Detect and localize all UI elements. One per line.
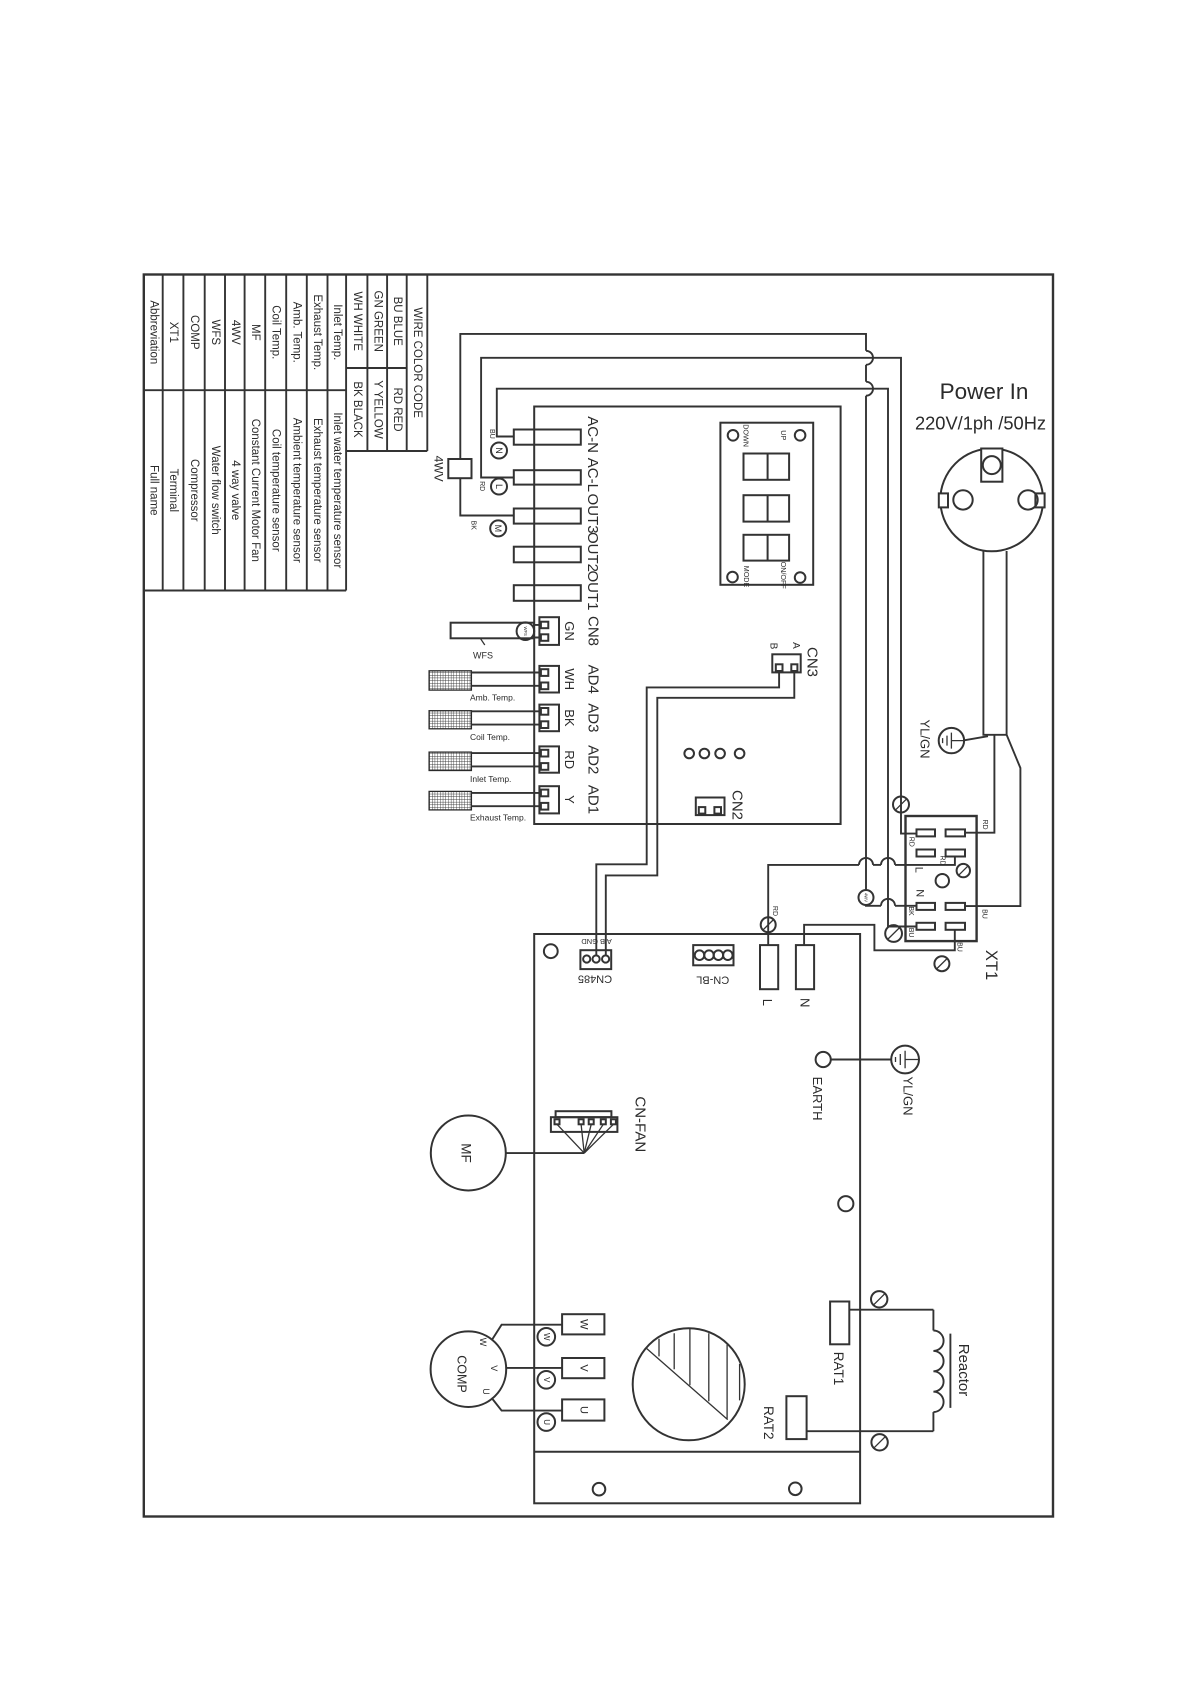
svg-text:N: N [914, 889, 926, 897]
wire hop 4WV over AC-N [866, 382, 873, 396]
mounting hole [544, 944, 558, 958]
legend table grid [144, 275, 428, 591]
svg-text:W: W [542, 1333, 551, 1341]
junction circle [871, 1434, 887, 1450]
node circle V [538, 1371, 556, 1389]
compressor motor COMP [431, 1331, 507, 1407]
temperature sensor Inlet Temp. [429, 752, 471, 770]
svg-text:BU: BU [907, 928, 914, 938]
wire COMP W [492, 1325, 562, 1341]
svg-text:Y: Y [562, 795, 577, 804]
screw circle on L feed [761, 917, 776, 932]
svg-text:COMP: COMP [455, 1355, 469, 1393]
connector CN485 [580, 950, 611, 969]
connector CN-FAN [551, 1111, 618, 1132]
svg-text:WFS: WFS [523, 627, 528, 637]
svg-text:CN3: CN3 [804, 647, 821, 677]
svg-text:V: V [542, 1377, 551, 1383]
svg-text:A B GND: A B GND [581, 937, 612, 946]
node M circle [490, 520, 506, 536]
svg-text:V: V [577, 1364, 589, 1372]
svg-text:U: U [542, 1419, 551, 1425]
svg-text:4WV: 4WV [864, 893, 869, 902]
svg-text:B: B [768, 643, 779, 650]
wire CN-FAN to MF [506, 1152, 584, 1154]
svg-text:RD: RD [771, 906, 778, 916]
svg-text:AC-N: AC-N [584, 416, 601, 453]
power PCB outline [534, 934, 860, 1503]
temperature sensor Exhaust Temp. [429, 791, 471, 810]
svg-text:BU: BU [488, 429, 495, 439]
svg-text:WFS: WFS [473, 651, 493, 661]
svg-text:Constant Current Motor Fan: Constant Current Motor Fan [249, 419, 261, 562]
svg-text:BK: BK [907, 906, 914, 916]
terminal RAT2 [786, 1396, 806, 1439]
connector CN-BL [693, 945, 733, 965]
wire reactor to RAT2 [807, 1430, 934, 1432]
svg-text:AD4: AD4 [585, 665, 602, 694]
svg-text:WH: WH [562, 668, 577, 690]
controller PCB outline [534, 407, 840, 825]
svg-text:AD2: AD2 [585, 745, 602, 774]
wire plug live RD to XT1 row1 [965, 735, 995, 833]
svg-text:Exhaust temperature sensor: Exhaust temperature sensor [311, 418, 323, 563]
svg-text:CN2: CN2 [729, 790, 746, 820]
terminal U [562, 1399, 604, 1420]
mounting hole [593, 1483, 606, 1496]
svg-text:UP: UP [779, 430, 788, 440]
terminal V [562, 1358, 604, 1378]
temperature sensor Amb. Temp. [429, 671, 471, 690]
wire COMP V [506, 1367, 562, 1369]
svg-text:BK: BK [562, 709, 577, 727]
svg-text:Inlet Temp.: Inlet Temp. [470, 774, 511, 784]
svg-text:OUT3: OUT3 [584, 494, 601, 534]
svg-text:Full name: Full name [147, 465, 159, 516]
svg-text:Ambient temperature sensor: Ambient temperature sensor [291, 418, 303, 563]
connector AD4 [539, 666, 559, 693]
wire COMP U [492, 1398, 562, 1411]
svg-text:BU: BU [956, 942, 963, 952]
svg-text:RD: RD [939, 855, 946, 865]
svg-text:DOWN: DOWN [742, 424, 751, 447]
connector CN3 [772, 654, 800, 672]
junction circle [871, 1291, 887, 1307]
svg-text:Coil temperature sensor: Coil temperature sensor [270, 429, 282, 552]
reactor coil [932, 1310, 934, 1331]
svg-text:U: U [577, 1406, 589, 1414]
svg-text:MF: MF [249, 324, 261, 341]
svg-text:RAT1: RAT1 [831, 1352, 846, 1386]
svg-text:RD: RD [562, 750, 577, 769]
svg-text:RD: RD [478, 481, 485, 491]
wire earth stud to YL/GN [831, 1059, 891, 1061]
spade terminal N [796, 945, 814, 989]
connector AD3 [539, 705, 559, 732]
svg-text:BK BLACK: BK BLACK [351, 381, 363, 438]
spade terminal L [760, 945, 778, 989]
terminal W [562, 1314, 604, 1334]
svg-text:BU BLUE: BU BLUE [391, 297, 403, 347]
screw circle XT1 mid [957, 864, 970, 877]
svg-text:YL/GN: YL/GN [918, 719, 933, 758]
wire L spade to XT1 row2 [768, 865, 859, 946]
relay output connector OUT3 [514, 509, 581, 524]
relay output connector AC-N [514, 430, 581, 445]
earth stud [816, 1052, 831, 1067]
svg-text:U: U [481, 1388, 491, 1395]
wire 4WV to OUT3 relay [460, 478, 514, 515]
svg-text:4WV: 4WV [229, 320, 241, 345]
svg-text:CN-FAN: CN-FAN [632, 1096, 649, 1152]
motor fan MF [431, 1116, 506, 1191]
wire 4WV coil feed [460, 334, 866, 459]
screw circle below XT1 [934, 956, 949, 971]
svg-text:Reactor: Reactor [955, 1344, 972, 1397]
svg-text:Amb. Temp.: Amb. Temp. [470, 693, 515, 703]
connector CN8 [539, 617, 559, 645]
display keypad block [720, 423, 813, 590]
svg-text:WIRE COLOR CODE: WIRE COLOR CODE [411, 307, 423, 418]
screw circle XT1 bottom-left [885, 925, 902, 942]
svg-text:Inlet Temp.: Inlet Temp. [331, 304, 343, 360]
mounting hole [789, 1483, 802, 1496]
wire CN3-B to CN485 [596, 671, 779, 956]
drawing border frame [144, 275, 1053, 1517]
svg-text:N: N [494, 447, 504, 454]
svg-text:RD RED: RD RED [391, 387, 403, 431]
svg-text:V: V [489, 1365, 499, 1371]
wire N spade to XT1 row4 [804, 925, 955, 951]
svg-text:CN8: CN8 [585, 616, 602, 646]
svg-text:Terminal: Terminal [167, 469, 179, 512]
svg-text:Coil Temp.: Coil Temp. [470, 732, 510, 742]
svg-text:COMP: COMP [188, 315, 200, 350]
connector AD2 [539, 746, 559, 772]
svg-text:N: N [798, 998, 813, 1007]
compressor body symbol [633, 1328, 745, 1440]
svg-text:CN-BL: CN-BL [696, 973, 729, 985]
svg-text:EARTH: EARTH [810, 1077, 825, 1121]
svg-text:Inlet water temperature sensor: Inlet water temperature sensor [331, 412, 343, 568]
svg-text:Amb. Temp.: Amb. Temp. [291, 302, 303, 363]
svg-text:Y YELLOW: Y YELLOW [371, 380, 383, 439]
terminal block XT1 [906, 816, 977, 941]
svg-text:MF: MF [459, 1143, 474, 1163]
svg-text:RD: RD [981, 819, 988, 829]
solenoid valve 4WV [448, 459, 471, 478]
svg-text:Compressor: Compressor [188, 459, 200, 522]
connector CN2 [696, 798, 725, 816]
relay output connector OUT1 [514, 585, 581, 601]
earth pigtail YL/GN [964, 736, 988, 740]
fan harness wires [557, 1124, 584, 1153]
svg-text:GN: GN [562, 621, 577, 641]
svg-text:OUT2: OUT2 [584, 532, 601, 572]
screw circle near XT1 top [893, 797, 909, 813]
svg-text:220V/1ph /50Hz: 220V/1ph /50Hz [915, 413, 1046, 434]
svg-text:ON/OFF: ON/OFF [779, 562, 788, 590]
svg-text:YL/GN: YL/GN [901, 1076, 916, 1115]
terminal RAT1 [830, 1302, 849, 1345]
wire hop 4WV over AC-L [866, 351, 873, 365]
svg-text:GN GREEN: GN GREEN [371, 291, 383, 352]
svg-text:4WV: 4WV [432, 456, 446, 482]
relay output connector AC-L [514, 470, 581, 484]
wire AC-N to XT1 (BU) [497, 389, 917, 927]
earth symbol YL/GN [891, 1046, 919, 1074]
svg-text:MODE: MODE [742, 566, 751, 588]
wire CN3-A to CN485 [606, 671, 795, 956]
svg-text:4 way valve: 4 way valve [229, 460, 241, 520]
connector AD1 [539, 786, 559, 813]
svg-text:A: A [790, 642, 801, 649]
svg-text:BU: BU [980, 909, 987, 919]
mains cord [983, 551, 1006, 735]
wire RAT1 to reactor [849, 1309, 933, 1311]
wire 4WV return into XT1 [866, 904, 881, 907]
node circle U [538, 1413, 556, 1431]
svg-text:XT1: XT1 [167, 322, 179, 343]
node circle W [538, 1328, 556, 1346]
svg-text:Water flow switch: Water flow switch [209, 446, 221, 535]
svg-text:WFS: WFS [209, 320, 221, 346]
svg-text:AD1: AD1 [585, 785, 602, 814]
water flow switch WFS [451, 623, 534, 639]
wire plug neutral BU to XT1 row3 [965, 735, 1021, 906]
temperature sensor Coil Temp. [429, 711, 471, 729]
svg-text:RD: RD [907, 837, 914, 847]
mounting hole [838, 1196, 853, 1211]
svg-text:L: L [494, 484, 504, 489]
svg-text:Coil Temp.: Coil Temp. [270, 305, 282, 359]
svg-text:M: M [493, 525, 503, 533]
svg-text:L: L [760, 999, 775, 1006]
node N circle [491, 443, 507, 459]
svg-text:XT1: XT1 [982, 950, 1000, 980]
relay output connector OUT2 [514, 547, 581, 563]
svg-text:OUT1: OUT1 [584, 570, 601, 610]
indicator LED row [684, 749, 694, 759]
svg-text:RAT2: RAT2 [761, 1406, 776, 1440]
svg-text:W: W [577, 1319, 589, 1330]
svg-text:Exhaust Temp.: Exhaust Temp. [311, 294, 323, 370]
svg-text:W: W [478, 1338, 488, 1347]
svg-text:Exhaust Temp.: Exhaust Temp. [470, 812, 526, 822]
svg-text:AD3: AD3 [585, 703, 602, 732]
svg-text:CN485: CN485 [578, 973, 612, 985]
svg-text:Abbreviation: Abbreviation [147, 300, 159, 364]
node L circle [491, 479, 507, 495]
svg-text:Power In: Power In [940, 379, 1029, 404]
mains plug [939, 449, 1045, 552]
svg-text:BK: BK [470, 521, 477, 531]
junction circle 4WV return [859, 890, 874, 905]
wire AC-L to XT1 (RD) [481, 358, 916, 834]
svg-text:AC-L: AC-L [584, 458, 601, 492]
svg-text:L: L [913, 867, 925, 873]
svg-text:WH WHITE: WH WHITE [351, 291, 363, 351]
